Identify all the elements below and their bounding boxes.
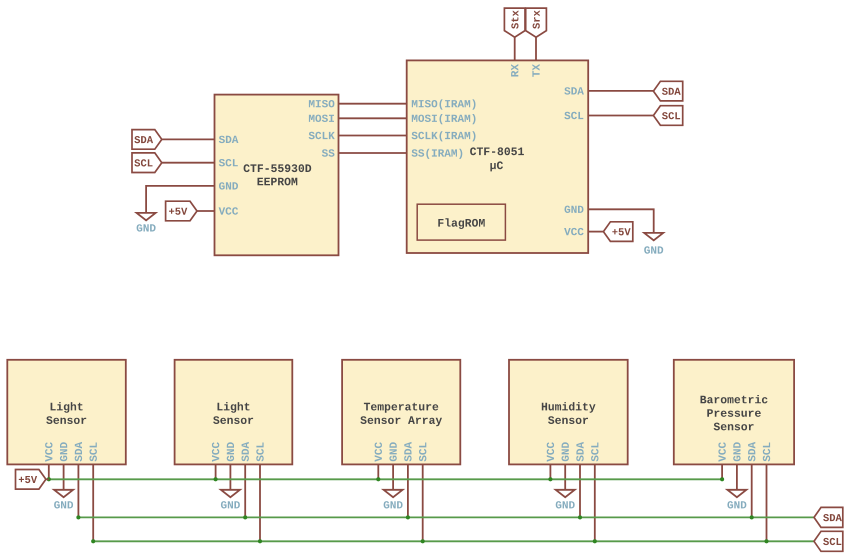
wire MISO: U1 to U2 xyxy=(339,103,407,105)
wire S4 SDA down to SDA net xyxy=(579,464,581,517)
sensor S4 body: Humidity Sensor xyxy=(509,360,628,465)
wire S5 VCC down to +5V net xyxy=(721,464,723,479)
S5 pin SCL (vertical name) xyxy=(763,443,770,462)
S4 pin SDA (vertical name) xyxy=(576,442,583,462)
ground symbol (U2) xyxy=(644,233,663,240)
U1 name label EEPROM xyxy=(258,178,298,186)
S5 title xyxy=(701,395,768,430)
net label Srx (vertical flag) xyxy=(526,8,547,37)
S2 title xyxy=(213,402,253,424)
wire S4 SCL down to SCL net xyxy=(594,464,596,541)
wire S5 SDA down to SDA net xyxy=(751,464,753,517)
net label SDA (sensor bus) xyxy=(814,507,843,527)
net label Stx (vertical flag) xyxy=(504,8,525,37)
FlagROM sub-block inside U2 xyxy=(417,204,505,240)
S1 pin SCL (vertical name) xyxy=(89,443,96,462)
ground symbol (S1) xyxy=(54,490,73,497)
wire SS: U1 to U2 xyxy=(339,152,407,154)
net SDA horizontal wire (green) xyxy=(78,516,814,518)
junction S5 SDA net xyxy=(750,515,754,519)
junction S2 SDA net xyxy=(243,515,247,519)
S1 pin GND (vertical name) xyxy=(60,442,67,461)
ground label GND (S4) xyxy=(556,501,575,508)
U2 name label uC xyxy=(490,161,503,171)
junction S1 VCC / +5V net xyxy=(47,477,51,481)
U1 value label CTF-55930D xyxy=(244,164,312,172)
wire S2 GND down to ground xyxy=(229,464,231,489)
U2 pin SCL (right) xyxy=(564,112,583,119)
S5 pin VCC (vertical name) xyxy=(718,442,725,462)
net SCL horizontal wire (green) xyxy=(93,540,814,542)
wire TX: Srx to U2 xyxy=(535,37,537,60)
S5 pin GND (vertical name) xyxy=(733,442,740,461)
wire U2 GND to ground xyxy=(588,209,654,233)
wire S3 GND down to ground xyxy=(392,464,394,489)
wire S2 SCL down to SCL net xyxy=(259,464,261,541)
junction S4 VCC / +5V net xyxy=(548,477,552,481)
S1 pin VCC (vertical name) xyxy=(45,442,52,462)
S1 pin SDA (vertical name) xyxy=(75,442,82,462)
ground label GND (S1) xyxy=(54,501,73,508)
power label +5V (U2 VCC) xyxy=(603,222,632,242)
wire SDA to U1 xyxy=(162,138,215,140)
power label +5V (sensor bus) xyxy=(16,470,46,490)
ground label GND (S5) xyxy=(727,501,746,508)
junction S4 SCL net xyxy=(593,539,597,543)
junction S3 SDA net xyxy=(406,515,410,519)
U2 pin TX (top) xyxy=(532,64,539,77)
wire U1 GND to ground xyxy=(146,186,214,213)
S3 pin SDA (vertical name) xyxy=(404,442,411,462)
wire S5 GND down to ground xyxy=(736,464,738,489)
IC U1 CTF-55930D EEPROM body xyxy=(215,95,339,256)
U2 pin VCC (right) xyxy=(564,228,584,235)
power label +5V (U1 VCC) xyxy=(166,201,197,221)
S3 pin GND (vertical name) xyxy=(389,442,396,461)
wire S3 SCL down to SCL net xyxy=(422,464,424,541)
S3 pin VCC (vertical name) xyxy=(375,442,382,462)
wire RX: Stx to U2 xyxy=(514,37,516,60)
sensor S2 body: Light Sensor xyxy=(175,360,293,465)
wire MOSI: U1 to U2 xyxy=(339,117,407,119)
ground label GND (U2) xyxy=(644,246,663,253)
U1 pin SDA (left) xyxy=(219,136,239,143)
junction S3 SCL net xyxy=(421,539,425,543)
sensor S3 body: Temperature Sensor Array xyxy=(342,360,460,465)
junction S2 SCL net xyxy=(258,539,262,543)
U2 pin RX (top) xyxy=(511,64,518,77)
junction S1 SDA net xyxy=(76,515,80,519)
S4 pin SCL (vertical name) xyxy=(591,443,598,462)
junction S5 VCC / +5V net xyxy=(720,477,724,481)
U1 pin SS (right) xyxy=(322,149,335,156)
wire +5V to U1 VCC xyxy=(197,210,215,212)
junction S3 VCC / +5V net xyxy=(376,477,380,481)
wire S3 VCC down to +5V net xyxy=(377,464,379,479)
wire +5V to U2 VCC xyxy=(588,231,603,233)
junction S5 SCL net xyxy=(764,539,768,543)
U2 pin MOSI(IRAM) (left) xyxy=(412,114,476,124)
ground symbol (S2) xyxy=(221,490,240,497)
S2 pin SCL (vertical name) xyxy=(256,443,263,462)
wire SCL to U1 xyxy=(162,162,215,164)
wire S3 SDA down to SDA net xyxy=(407,464,409,517)
wire SCLK: U1 to U2 xyxy=(339,135,407,137)
wire SCL: U2 to label xyxy=(588,115,653,117)
net label SDA (left of U1) xyxy=(132,130,162,150)
net label SDA (right of U2) xyxy=(653,81,682,101)
U2 pin MISO(IRAM) (left) xyxy=(412,99,476,109)
S2 pin GND (vertical name) xyxy=(227,442,234,461)
ground symbol (U1) xyxy=(137,213,156,220)
junction S2 VCC / +5V net xyxy=(214,477,218,481)
S2 pin VCC (vertical name) xyxy=(212,442,219,462)
U1 pin MOSI (right) xyxy=(309,115,334,122)
FlagROM label xyxy=(438,218,484,229)
wire S2 SDA down to SDA net xyxy=(244,464,246,517)
U2 pin SDA (right) xyxy=(564,87,584,94)
S2 pin SDA (vertical name) xyxy=(241,442,248,462)
ground label GND (U1) xyxy=(137,224,156,231)
ground label GND (S3) xyxy=(384,501,403,508)
junction S1 SCL net xyxy=(91,539,95,543)
wire S1 VCC down to +5V net xyxy=(48,464,50,479)
wire S4 GND down to ground xyxy=(564,464,566,489)
S4 pin VCC (vertical name) xyxy=(547,442,554,462)
S4 pin GND (vertical name) xyxy=(562,442,569,461)
U1 pin GND (left) xyxy=(219,182,238,189)
S3 pin SCL (vertical name) xyxy=(419,443,426,462)
wire +5V tip to VCC junction xyxy=(46,478,49,480)
net label SCL (right of U2) xyxy=(653,106,682,126)
wire S4 VCC down to +5V net xyxy=(549,464,551,479)
sensor S5 body: Barometric Pressure Sensor xyxy=(674,360,794,465)
wire S2 VCC down to +5V net xyxy=(215,464,217,479)
IC U2 CTF-8051 microcontroller body xyxy=(407,60,589,253)
U2 value label CTF-8051 xyxy=(470,147,524,155)
junction S4 SDA net xyxy=(578,515,582,519)
U2 pin SS(IRAM) (left) xyxy=(412,149,463,159)
U1 pin SCL (left) xyxy=(219,159,238,166)
wire SDA: U2 to label xyxy=(588,90,653,92)
U1 pin VCC (left) xyxy=(219,207,239,214)
net label SCL (sensor bus) xyxy=(814,531,843,551)
sensor S1 body: Light Sensor xyxy=(7,360,126,465)
U1 pin SCLK (right) xyxy=(309,132,335,139)
S4 title xyxy=(542,402,596,424)
ground symbol (S3) xyxy=(384,490,403,497)
ground symbol (S4) xyxy=(556,490,575,497)
U1 pin MISO (right) xyxy=(309,100,335,107)
wire S1 SCL down to SCL net xyxy=(92,464,94,541)
wire S1 SDA down to SDA net xyxy=(77,464,79,517)
wire S1 GND down to ground xyxy=(63,464,65,489)
ground label GND (S2) xyxy=(221,501,240,508)
S1 title xyxy=(46,402,86,424)
S5 pin SDA (vertical name) xyxy=(748,442,755,462)
S3 title xyxy=(360,403,442,426)
wire S5 SCL down to SCL net xyxy=(766,464,768,541)
U2 pin GND (right) xyxy=(565,206,584,213)
U2 pin SCLK(IRAM) (left) xyxy=(412,131,476,141)
net label SCL (left of U1) xyxy=(132,153,162,173)
net +5V horizontal wire (green) xyxy=(49,478,722,480)
ground symbol (S5) xyxy=(727,490,746,497)
